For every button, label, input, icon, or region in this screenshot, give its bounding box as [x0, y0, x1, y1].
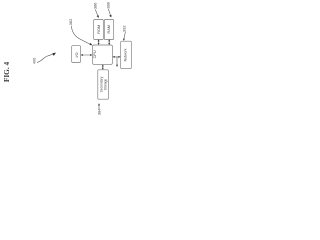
connector I/O-CPU	[82, 54, 91, 56]
I/O box	[72, 46, 81, 63]
svg-text:Storage: Storage	[103, 79, 107, 91]
leader arrow for 400	[37, 54, 52, 62]
svg-text:Network: Network	[124, 48, 128, 61]
svg-text:FIG. 4: FIG. 4	[2, 62, 11, 83]
branch arrow down from CPU-Network connector	[116, 57, 118, 65]
svg-text:392: 392	[121, 25, 126, 32]
leader arrow for 384	[98, 105, 100, 109]
leader arrow for 388	[108, 9, 110, 15]
connector CPU-Network	[114, 56, 119, 58]
leader arrow for 386	[95, 10, 97, 16]
leader arrow for 382 (to CPU box)	[71, 26, 90, 44]
ROM box	[94, 20, 104, 40]
Secondary Storage box	[98, 70, 109, 99]
svg-text:ROM: ROM	[97, 25, 101, 34]
svg-text:RAM: RAM	[107, 25, 111, 33]
svg-text:400: 400	[32, 57, 37, 64]
connector CPU-Secondary Storage	[102, 66, 104, 69]
CPU box	[93, 45, 113, 64]
Network box	[121, 41, 132, 68]
svg-text:388: 388	[106, 2, 111, 8]
svg-text:386: 386	[92, 3, 97, 10]
connector ROM-CPU	[98, 41, 100, 44]
connector RAM-CPU	[108, 41, 110, 44]
svg-text:I/O: I/O	[75, 52, 79, 57]
svg-text:CPU: CPU	[93, 50, 97, 58]
svg-text:382: 382	[68, 19, 73, 26]
leader arrow for 392	[124, 32, 125, 39]
RAM box	[104, 20, 113, 40]
